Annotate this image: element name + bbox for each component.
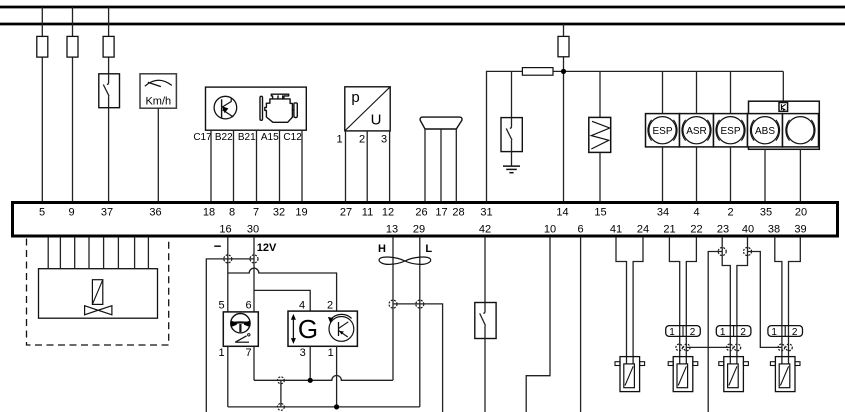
svg-text:40: 40 [742,224,754,236]
switch S1 (on wire 37) [99,74,120,108]
svg-text:1: 1 [669,327,675,338]
wire pin 10 [526,237,550,412]
wire p/U pin2 to 11 [366,131,368,201]
wire minus branch left [206,259,254,412]
svg-text:1: 1 [328,347,334,359]
junction node supply [561,69,566,74]
junction G pin3 [308,378,313,383]
svg-text:15: 15 [594,207,606,219]
jumper between return buses [280,380,282,407]
twisted pair symbol [379,257,431,264]
svg-text:2: 2 [727,207,733,219]
wire lamp to pin 35 [764,149,766,201]
svg-text:14: 14 [556,207,568,219]
wire 40 reroute to sensor G47 [748,252,782,348]
bus line 30 (top supply rail) [0,6,845,9]
wire lamp to pin 2 [730,147,732,201]
wire A15 to pin 32 [279,130,281,201]
wire 13 riser join [392,237,394,380]
svg-text:7: 7 [245,347,251,359]
wire lamp ASR feed [696,71,698,113]
svg-text:32: 32 [273,207,285,219]
svg-text:B22: B22 [215,132,233,143]
svg-text:12V: 12V [257,242,277,254]
svg-text:6: 6 [245,300,251,312]
svg-text:−: − [214,239,222,254]
ground [503,166,520,173]
wheel sensor G44 body [615,357,645,392]
svg-text:12: 12 [382,207,394,219]
svg-text:20: 20 [795,207,807,219]
connector on wire 23 [718,248,726,256]
svg-text:29: 29 [413,224,425,236]
svg-text:24: 24 [637,224,649,236]
svg-text:p: p [351,89,359,106]
wire switch S2 tap [511,71,513,117]
link wire sensors G45-G46 [687,346,730,348]
lamp H3 ESP [714,114,748,147]
svg-text:2: 2 [359,134,365,146]
svg-text:2: 2 [690,327,696,338]
pressure sensor B1 (p/U) [345,87,390,131]
svg-text:ESP: ESP [652,126,672,137]
wire B2 to pin 26 [424,129,426,201]
wire S2 to ground [511,152,513,167]
wire 42 continuation [484,339,486,412]
svg-text:39: 39 [794,224,806,236]
svg-text:5: 5 [218,300,224,312]
svg-text:17: 17 [435,207,447,219]
svg-text:6: 6 [577,224,583,236]
wire coil to pin 15 [599,152,601,201]
lamp H2 ASR [680,114,714,147]
fuse F2 [67,36,78,57]
svg-text:7: 7 [253,207,259,219]
svg-text:10: 10 [544,224,556,236]
wire p/U pin1 to 27 [345,131,347,201]
wire G pin 1 down [336,346,338,407]
wire lamp to pin 20 [799,149,801,201]
wire B21 to pin 7 [256,130,258,201]
wire 29 riser join [419,237,421,407]
wire B2 to pin 17 [440,129,442,201]
valve coil Y1 [589,117,611,152]
lamp H1 ESP [646,114,680,147]
fuse F4 [558,36,569,56]
wire coil tap [599,71,601,117]
wire pin 9 supply [72,7,74,201]
svg-text:3: 3 [300,347,306,359]
svg-text:2: 2 [740,327,746,338]
wire C12 to pin 19 [301,130,303,201]
svg-text:A15: A15 [261,132,279,143]
wire minus to G pin 2 (hop over 12V) [228,268,337,311]
junction G pin1 [334,404,339,409]
svg-text:38: 38 [768,224,780,236]
instrument cluster U2 [206,87,307,130]
wire ABS module feed [782,71,784,102]
svg-text:U: U [371,112,382,129]
ECU pin labels top row [39,207,807,219]
connector contacts (wheel sensor G45) [676,344,690,351]
svg-text:4: 4 [693,207,699,219]
switch S2 [501,118,522,152]
svg-text:26: 26 [415,207,427,219]
wire pin 6 [580,237,582,412]
svg-text:C12: C12 [283,132,302,143]
fuse F1 [37,36,48,57]
svg-text:16: 16 [219,224,231,236]
lamp H4 ABS [748,114,783,147]
wheel sensor G47 body [770,357,800,392]
diagnostic lamp icon [779,103,788,112]
svg-text:28: 28 [452,207,464,219]
wire steering pin 7 down [253,346,255,380]
connector contacts (wheel sensor G47) [778,344,792,351]
svg-text:8: 8 [229,207,235,219]
valve symbol [85,280,112,315]
connector plug 1-2 box (wheel sensor G45) [666,326,701,338]
wire C17 to pin 18 [210,130,212,201]
svg-text:B21: B21 [238,132,256,143]
sensor B2 (pedal sensor cap) [420,117,462,129]
connector on wire 30 [250,255,258,263]
wire pin 31 riser [487,71,523,201]
svg-text:1: 1 [336,134,342,146]
wire pin 36 [157,108,159,201]
svg-text:3: 3 [381,134,387,146]
wire p/U pin3 to 12 [389,131,391,201]
svg-text:H: H [378,243,386,255]
wire pin 42 [484,237,486,303]
resistor R1 (inline) [522,68,553,76]
svg-text:41: 41 [610,224,622,236]
wheel sensor G45 wiring [669,237,696,364]
svg-text:1: 1 [720,327,726,338]
bus wire upper return (hop over G pin1) [254,375,393,380]
bus wire lower return [228,406,420,408]
speedometer Km/h [140,74,176,108]
supply line node wire [553,70,783,72]
wheel sensor G44 wiring [616,237,643,364]
ECU J104 control unit box [13,203,838,237]
wire pin 37 supply [108,7,110,201]
connector on wire 29 [416,300,424,308]
svg-text:34: 34 [657,207,669,219]
CAN stub to other ECU [393,304,443,412]
wire G pin 3 down [309,346,311,380]
svg-text:11: 11 [362,207,373,219]
svg-text:42: 42 [479,224,491,236]
svg-text:36: 36 [149,207,161,219]
svg-text:30: 30 [247,224,259,236]
svg-text:ABS: ABS [755,126,775,137]
connector on wire 13 [389,300,397,308]
wheel sensor G46 wiring [722,237,747,364]
svg-text:4: 4 [299,300,305,312]
wheel sensor G46 body [719,357,749,392]
wire steering pin 1 down [227,346,229,407]
fuse F3 [103,36,114,57]
wire pin 5 supply [41,7,43,201]
brake switch F (on wire 42) [475,303,496,339]
wire pin 16 (minus) [227,237,229,312]
lamp H5 spare [783,114,819,147]
connector on wire 16 [224,255,232,263]
connector plug 1-2 box (wheel sensor G46) [716,326,751,338]
connector on lower return [278,404,285,411]
svg-text:13: 13 [386,224,398,236]
steering angle sensor G85 [223,312,258,346]
wire 12V to G pin 4 [254,290,310,311]
svg-text:23: 23 [717,224,729,236]
engine icon [260,94,297,122]
wire lamp to pin 34 [662,147,664,201]
svg-text:37: 37 [101,207,113,219]
yaw rate / acceleration sensor G202 [288,311,357,346]
wire lamp ESP2 feed [730,71,732,113]
svg-text:31: 31 [480,207,492,219]
wire pin 14 riser with fuse feed [563,24,565,201]
connector plug 1-2 box (wheel sensor G47) [768,326,803,338]
svg-text:9: 9 [68,207,74,219]
wheel sensor G45 body [668,357,698,392]
wire lamp to pin 4 [696,147,698,201]
bus line 15 (second supply rail) [0,23,845,26]
hydraulic unit dashed enclosure [27,239,169,346]
connector contacts (wheel sensor G46) [727,344,741,351]
svg-text:27: 27 [340,207,352,219]
svg-text:1: 1 [771,327,777,338]
wire pin 30 (12V) [253,237,255,312]
wires ECU to valve block [48,237,148,269]
connector on upper return [278,377,285,384]
svg-text:21: 21 [663,224,675,236]
svg-text:5: 5 [39,207,45,219]
svg-text:C17: C17 [193,132,212,143]
wire B2 to pin 28 [455,129,457,201]
svg-text:1: 1 [218,347,224,359]
connector on wire 40 [744,248,752,256]
wire 23 branch to rear [708,252,722,412]
svg-text:2: 2 [327,300,333,312]
svg-text:L: L [425,243,432,255]
indicator output symbol (transistor in circle) [214,96,237,119]
ECU pin labels bottom row [219,224,806,236]
svg-text:18: 18 [203,207,215,219]
wheel sensor G47 wiring [775,237,801,364]
svg-text:G: G [298,314,318,344]
svg-text:ESP: ESP [720,126,740,137]
svg-text:22: 22 [690,224,702,236]
wire B22 to pin 8 [233,130,235,201]
wire lamp ESP feed [662,71,664,113]
svg-text:19: 19 [295,207,307,219]
svg-text:ASR: ASR [686,126,707,137]
svg-text:Km/h: Km/h [145,96,171,108]
hydraulic valve block box [39,269,158,319]
lamp module outer box (ABS warning unit) [749,101,820,149]
svg-text:35: 35 [760,207,772,219]
svg-text:2: 2 [792,327,798,338]
